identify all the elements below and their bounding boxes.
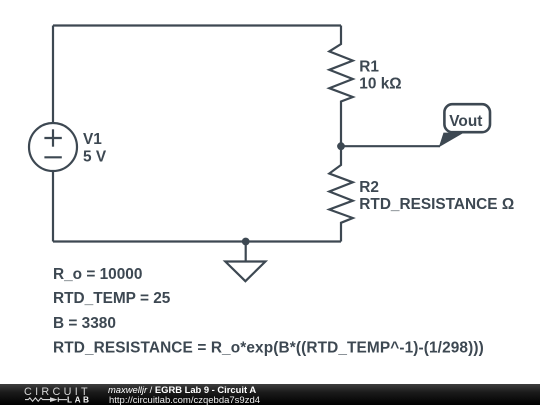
node junction at R1/R2	[337, 142, 345, 150]
resistor R1	[329, 26, 353, 147]
svg-text:10 kΩ: 10 kΩ	[359, 76, 401, 93]
footer bar	[0, 384, 540, 405]
svg-text:RTD_RESISTANCE = R_o*exp(B*((R: RTD_RESISTANCE = R_o*exp(B*((RTD_TEMP^-1…	[53, 339, 484, 356]
wire left upper	[52, 26, 54, 124]
CircuitLab logo	[0, 384, 110, 405]
svg-text:5 V: 5 V	[83, 148, 107, 165]
svg-text:RTD_RESISTANCE Ω: RTD_RESISTANCE Ω	[359, 196, 514, 213]
svg-text:R2: R2	[359, 179, 379, 196]
resistor R2	[329, 146, 353, 242]
svg-text:R_o = 10000: R_o = 10000	[53, 266, 142, 283]
svg-text:V1: V1	[83, 131, 102, 148]
label R2 value	[359, 179, 514, 213]
wire bottom	[53, 240, 341, 242]
wire top	[53, 24, 341, 26]
ground stub wire	[245, 242, 247, 262]
svg-text:B = 3380: B = 3380	[53, 315, 116, 332]
voltage source V1	[29, 123, 77, 171]
svg-text:R1: R1	[359, 58, 379, 75]
node junction at ground	[242, 238, 250, 246]
svg-text:LAB: LAB	[67, 395, 92, 405]
node Vout flag	[439, 104, 490, 147]
ground	[225, 262, 265, 282]
svg-text:Vout: Vout	[449, 113, 482, 130]
wire node to Vout	[341, 145, 440, 147]
wire left lower	[52, 171, 54, 242]
logo resistor-diode symbol	[25, 397, 67, 402]
svg-text:RTD_TEMP = 25: RTD_TEMP = 25	[53, 290, 171, 307]
